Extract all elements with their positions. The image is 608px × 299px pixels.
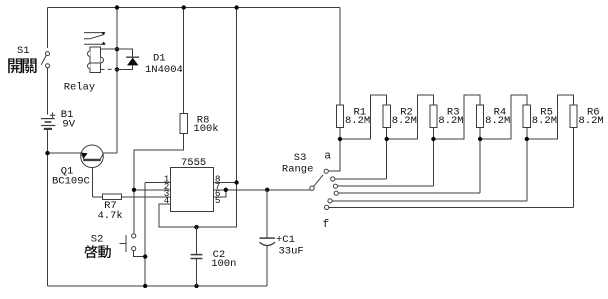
relay RL1 — [64, 32, 117, 93]
svg-text:8.2M: 8.2M — [438, 115, 463, 127]
svg-text:4: 4 — [164, 195, 170, 206]
switch S3 Range — [282, 150, 338, 231]
node ground rail junction — [143, 284, 147, 288]
node top rail / pin8 branch — [234, 5, 238, 9]
resistor R2 8.2M — [383, 105, 417, 128]
node top rail / relay branch — [115, 5, 119, 9]
wire — [91, 167, 93, 197]
battery B1 — [41, 109, 76, 130]
wire — [47, 130, 49, 286]
svg-text:4.7k: 4.7k — [98, 210, 123, 222]
svg-text:Range: Range — [282, 164, 314, 176]
wire — [387, 95, 434, 139]
wire — [47, 68, 49, 115]
wire — [48, 285, 268, 287]
svg-text:1N4004: 1N4004 — [145, 64, 183, 76]
switch S2 — [91, 234, 136, 253]
svg-text:D1: D1 — [153, 53, 166, 65]
node S3 contact c — [333, 184, 337, 188]
wire — [145, 182, 170, 184]
svg-text:8.2M: 8.2M — [532, 115, 557, 127]
svg-text:BC109C: BC109C — [52, 176, 90, 188]
resistor R4 8.2M — [477, 105, 511, 128]
resistor R3 8.2M — [430, 105, 464, 128]
svg-text:8.2M: 8.2M — [485, 115, 510, 127]
diode D1 1N4004 — [117, 49, 183, 76]
node relay coil top — [115, 47, 119, 51]
node top rail / R8 branch — [182, 5, 186, 9]
svg-text:100n: 100n — [211, 258, 236, 270]
svg-text:7555: 7555 — [181, 157, 206, 169]
node S3 contact e — [328, 199, 332, 203]
capacitor C1 33uF — [260, 190, 304, 286]
transistor Q1 BC109C — [52, 145, 104, 188]
switch S1 — [17, 45, 50, 68]
svg-text:8.2M: 8.2M — [345, 115, 370, 127]
node pin 8 junction — [234, 180, 238, 184]
svg-text:100k: 100k — [193, 123, 218, 135]
resistor R5 8.2M — [523, 105, 557, 128]
wire — [573, 128, 575, 208]
wire — [116, 8, 118, 154]
wire — [339, 8, 341, 106]
wire — [48, 7, 341, 9]
wire — [134, 133, 184, 233]
svg-text:S3: S3 — [294, 152, 307, 164]
node C2 ground junction — [194, 284, 198, 288]
wire — [48, 152, 82, 154]
wire — [214, 182, 237, 184]
capacitor C2 100n — [191, 227, 237, 286]
resistor R6 8.2M — [570, 105, 604, 128]
node S3 contact a — [324, 169, 328, 173]
svg-text:S2: S2 — [91, 234, 104, 246]
wire — [144, 183, 146, 286]
wire — [340, 95, 387, 139]
svg-text:8.2M: 8.2M — [579, 115, 604, 127]
node C1 top junction — [265, 188, 269, 192]
wire — [527, 95, 574, 139]
wire — [328, 128, 340, 172]
svg-text:S1: S1 — [17, 45, 30, 57]
node C2 top junction — [194, 225, 198, 229]
node pin 2 junction — [132, 188, 136, 192]
node S3 contact f — [325, 205, 329, 209]
node relay coil bottom — [115, 67, 119, 71]
label S1 開關 — [8, 58, 36, 73]
node R1 bottom junction — [338, 137, 342, 141]
wire — [134, 251, 146, 257]
svg-text:+C1: +C1 — [276, 234, 295, 246]
resistor R8 100k — [180, 114, 219, 136]
node S2 to ground — [143, 254, 147, 258]
wire — [214, 189, 310, 191]
wire — [121, 196, 170, 198]
svg-text:a: a — [324, 150, 331, 162]
wire — [104, 152, 117, 154]
wire — [386, 128, 388, 180]
wire — [159, 183, 237, 228]
node S3 contact b — [331, 177, 335, 181]
label S2 啓動 — [84, 245, 111, 258]
wire — [335, 178, 387, 180]
svg-text:33uF: 33uF — [279, 245, 304, 257]
node R2 bottom junction — [385, 137, 389, 141]
node R4 bottom junction — [478, 137, 482, 141]
node R5 bottom junction — [525, 137, 529, 141]
wire — [433, 95, 480, 139]
wire — [338, 185, 434, 187]
node S3 contact d — [334, 191, 338, 195]
svg-text:f: f — [323, 219, 330, 231]
wire — [479, 128, 481, 194]
wire — [332, 200, 527, 202]
node pin 6/7 junction — [224, 188, 228, 192]
wire — [134, 189, 170, 191]
svg-text:5: 5 — [215, 195, 221, 206]
wire — [329, 206, 574, 208]
wire — [338, 192, 480, 194]
node R3 bottom junction — [431, 137, 435, 141]
wire — [47, 8, 49, 49]
wire — [214, 190, 226, 197]
wire — [92, 196, 102, 198]
svg-text:9V: 9V — [62, 118, 75, 130]
IC U1 7555 — [164, 157, 221, 212]
resistor R7 4.7k — [98, 194, 123, 222]
node battery minus / emitter — [45, 151, 49, 155]
wire — [526, 128, 528, 201]
wire — [432, 128, 434, 187]
wire — [480, 95, 527, 139]
wire — [236, 8, 238, 183]
svg-text:Relay: Relay — [64, 82, 96, 94]
resistor R1 8.2M — [336, 105, 370, 128]
wire — [183, 8, 185, 114]
svg-text:8.2M: 8.2M — [392, 115, 417, 127]
